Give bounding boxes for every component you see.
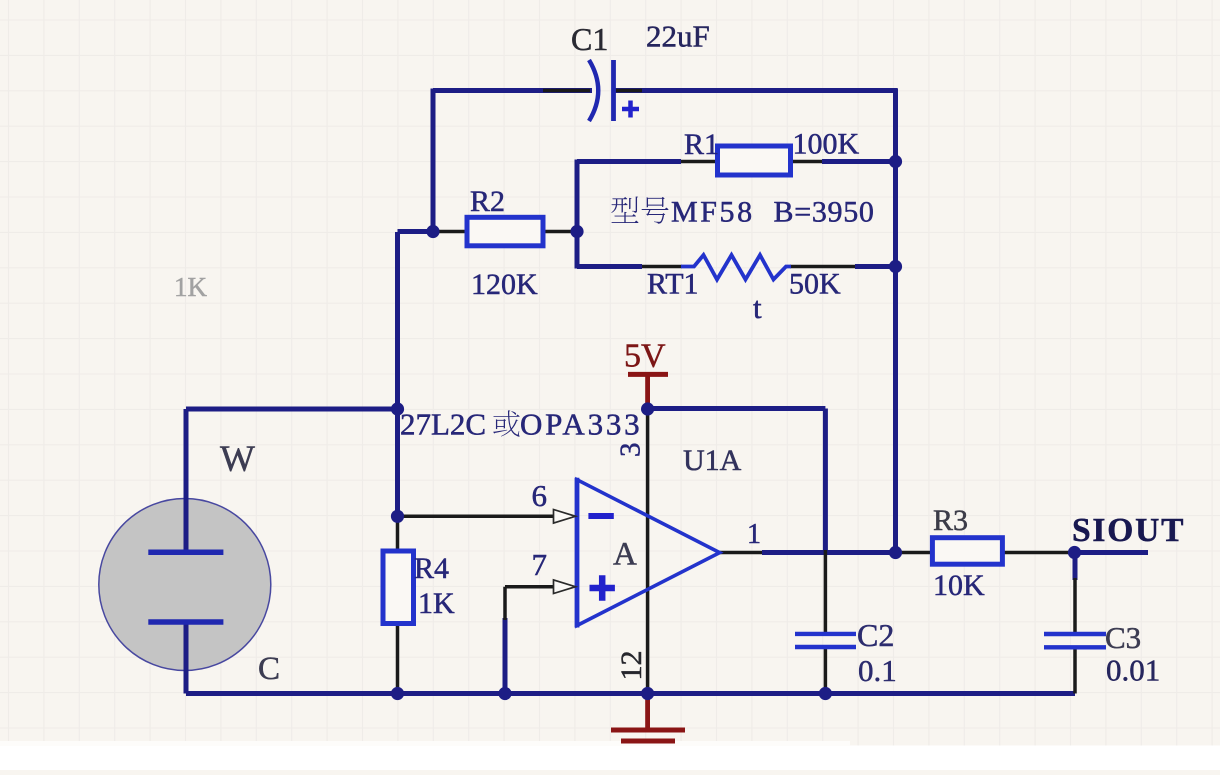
svg-text:0.1: 0.1 (858, 653, 897, 688)
svg-text:MF58: MF58 (671, 196, 755, 229)
svg-text:U1A: U1A (683, 444, 742, 477)
svg-text:A: A (613, 537, 637, 573)
svg-text:R1: R1 (684, 128, 719, 161)
svg-text:R3: R3 (933, 504, 968, 537)
svg-text:27L2C: 27L2C (400, 407, 486, 442)
svg-text:120K: 120K (471, 268, 538, 301)
svg-text:C2: C2 (857, 617, 894, 653)
svg-text:B=3950: B=3950 (774, 196, 875, 229)
svg-text:R2: R2 (470, 185, 505, 218)
svg-text:50K: 50K (789, 268, 841, 301)
svg-text:7: 7 (532, 547, 548, 582)
svg-text:1K: 1K (174, 272, 208, 302)
svg-text:OPA333: OPA333 (520, 407, 642, 442)
svg-text:10K: 10K (933, 569, 985, 602)
svg-text:1: 1 (747, 519, 761, 550)
svg-text:C1: C1 (571, 21, 608, 57)
svg-text:W: W (220, 439, 255, 480)
svg-text:6: 6 (532, 478, 548, 513)
svg-text:1K: 1K (418, 587, 455, 620)
svg-text:C3: C3 (1105, 620, 1141, 655)
svg-text:R4: R4 (414, 552, 449, 585)
svg-text:t: t (753, 290, 762, 325)
svg-text:5V: 5V (624, 338, 666, 375)
svg-text:22uF: 22uF (646, 19, 710, 54)
svg-text:3: 3 (615, 443, 647, 458)
svg-text:12: 12 (615, 651, 648, 681)
svg-text:0.01: 0.01 (1106, 653, 1160, 688)
svg-text:C: C (258, 651, 280, 687)
svg-text:100K: 100K (793, 128, 860, 161)
svg-text:SIOUT: SIOUT (1072, 512, 1185, 549)
svg-text:RT1: RT1 (647, 268, 699, 301)
